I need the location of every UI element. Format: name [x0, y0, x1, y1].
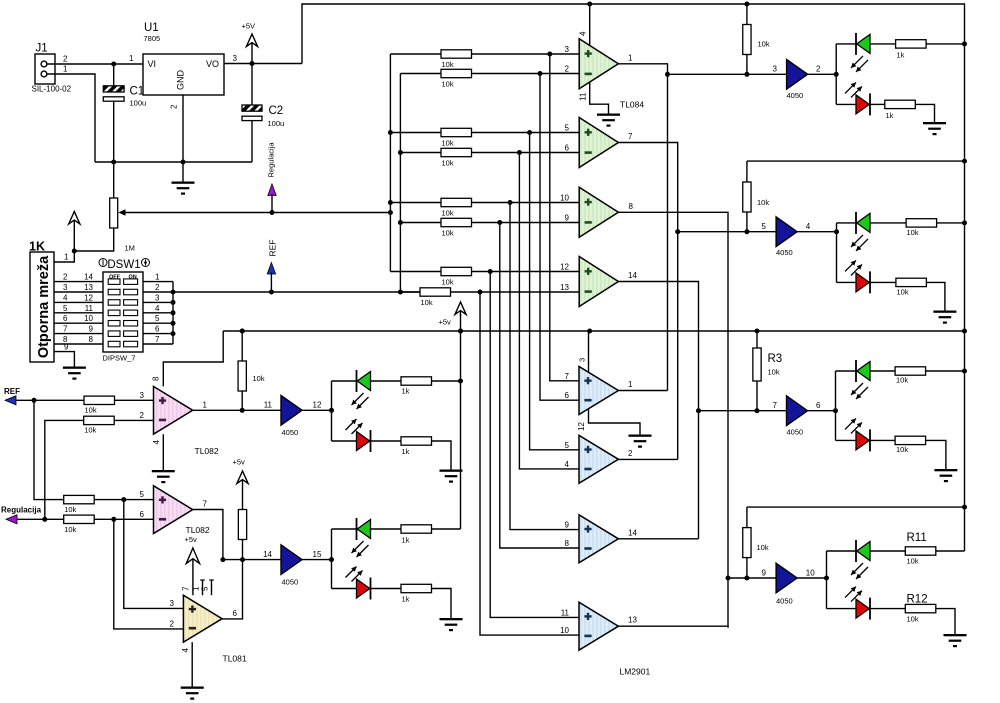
resistor 10k ch3 red — [895, 436, 926, 444]
op-amp U4B TL084 — [579, 118, 618, 168]
wire network pin 6 to DSW1 pin 10 — [54, 322, 103, 324]
+5v col left — [455, 302, 466, 315]
pullup 10k TL082-1 — [238, 361, 246, 391]
bus column node 2 — [540, 74, 579, 401]
svg-text:GND: GND — [176, 70, 186, 91]
svg-text:3: 3 — [170, 599, 175, 608]
buffer 4050 ch3 — [787, 396, 808, 426]
regulator U1 7805 — [143, 54, 224, 95]
svg-text:R3: R3 — [768, 353, 783, 365]
svg-text:10k: 10k — [421, 298, 433, 307]
svg-text:1: 1 — [64, 253, 69, 262]
svg-text:+5V: +5V — [242, 22, 256, 31]
svg-text:11: 11 — [264, 401, 273, 410]
LED branch ch3 — [835, 371, 837, 440]
pullup 10k ch4 — [747, 506, 965, 508]
svg-text:14: 14 — [628, 528, 637, 537]
wire TL081 out6 — [222, 560, 242, 619]
resistor network 1K Otporna mreza — [30, 252, 54, 362]
svg-text:4: 4 — [806, 222, 811, 231]
ground L1 red — [440, 470, 463, 472]
LED branch ch1 — [835, 44, 837, 105]
svg-text:3: 3 — [140, 391, 145, 400]
svg-text:4: 4 — [181, 648, 190, 653]
svg-text:+5v: +5v — [185, 535, 198, 544]
svg-text:10k: 10k — [907, 557, 919, 566]
svg-text:10k: 10k — [907, 228, 919, 237]
svg-text:5: 5 — [140, 490, 145, 499]
wire DSW1 pin 1 to bus — [143, 281, 173, 283]
svg-text:10k: 10k — [442, 139, 454, 148]
svg-text:5: 5 — [565, 441, 570, 450]
svg-text:4050: 4050 — [776, 248, 793, 257]
wire ch4 input — [728, 577, 776, 579]
bus column node 8 — [480, 292, 579, 635]
svg-text:5: 5 — [201, 586, 210, 591]
svg-text:4: 4 — [155, 304, 160, 313]
+5v arrow network — [69, 212, 80, 225]
ground ch2 — [933, 311, 956, 313]
svg-text:6: 6 — [565, 391, 570, 400]
resistor 1k L2 red — [401, 584, 432, 592]
ground symbol U1 — [182, 162, 184, 182]
svg-text:7: 7 — [628, 132, 633, 141]
svg-text:2: 2 — [140, 411, 145, 420]
svg-text:3: 3 — [578, 358, 587, 362]
resistor 10k pin6 — [64, 515, 94, 523]
comp1 pin3 +5v — [588, 331, 590, 372]
resistor 10k row pin3 — [390, 53, 441, 55]
+5v arrow TL082B — [237, 471, 248, 484]
svg-text:2: 2 — [155, 283, 160, 292]
buffer 4050 ch1 — [787, 60, 808, 90]
wire DSW1 pin 2 to bus — [143, 291, 173, 293]
svg-text:10k: 10k — [442, 60, 454, 69]
op-amp U2A TL082 — [154, 386, 193, 434]
svg-text:+5v: +5v — [439, 318, 452, 327]
red LED ch2 — [837, 281, 857, 283]
wire ch2 input — [678, 231, 776, 233]
bus column node 4 — [519, 153, 579, 469]
svg-text:6: 6 — [140, 510, 145, 519]
wire Regulacija up to row2 — [45, 420, 84, 519]
svg-text:TL081: TL081 — [223, 654, 247, 664]
bus column node 5 — [510, 203, 579, 530]
wire REF bus — [173, 291, 420, 293]
svg-text:3: 3 — [565, 45, 570, 54]
resistor 10k row pin9 — [400, 222, 441, 224]
potentiometer 1M — [113, 162, 115, 198]
svg-text:Regulacija: Regulacija — [1, 506, 42, 515]
LED branch L2 — [331, 529, 333, 589]
svg-text:REF: REF — [4, 387, 20, 396]
resistor 10k row pin6 — [400, 152, 441, 154]
pullup 10k TL082B — [238, 510, 246, 540]
green LED L2 — [332, 528, 357, 530]
TL081 pin7 +5v — [192, 580, 194, 595]
svg-text:7: 7 — [773, 401, 778, 410]
green LED ch3 — [836, 370, 857, 372]
TL081 pin4 ground — [191, 642, 193, 686]
op-amp U3 TL081 — [183, 595, 222, 642]
svg-text:3: 3 — [155, 293, 160, 302]
ground ch1 — [923, 122, 946, 124]
U1 GND pin 2 — [182, 95, 184, 162]
wire J1 pin2 to U1 VI — [47, 63, 143, 65]
svg-text:1k: 1k — [402, 387, 410, 396]
op-amp U4C TL084 — [579, 187, 618, 237]
svg-text:10k: 10k — [758, 40, 770, 49]
wire TL082 out1 — [193, 409, 281, 411]
comparator U5D LM2901 — [579, 602, 618, 650]
svg-text:1k: 1k — [886, 111, 894, 120]
svg-text:1: 1 — [155, 273, 160, 282]
red LED L2 — [332, 588, 357, 590]
svg-text:1: 1 — [63, 65, 68, 74]
ground ch4 — [944, 634, 967, 636]
resistor 10k ch2 green — [906, 219, 937, 227]
svg-text:2: 2 — [628, 449, 633, 458]
svg-text:7805: 7805 — [144, 34, 161, 43]
wire DSW1 pin 3 to bus — [143, 301, 173, 303]
svg-text:9: 9 — [565, 214, 570, 223]
LED branch L1 — [331, 381, 333, 441]
svg-text:15: 15 — [313, 550, 322, 559]
svg-text:3: 3 — [233, 54, 238, 63]
svg-text:10: 10 — [806, 569, 815, 578]
resistor 10k ch3 green — [895, 367, 926, 375]
wire out14 — [618, 282, 698, 539]
resistor 10k row pin13 — [400, 291, 420, 293]
wire DSW1 pin 7 to bus — [143, 343, 173, 345]
svg-text:10k: 10k — [442, 209, 454, 218]
svg-text:13: 13 — [628, 616, 637, 625]
svg-text:14: 14 — [84, 273, 93, 282]
svg-text:10k: 10k — [896, 376, 908, 385]
svg-text:VO: VO — [206, 59, 219, 69]
resistor 10k row pin12 — [390, 271, 441, 273]
svg-text:J1: J1 — [36, 43, 48, 55]
wire J1 pin1 down to ground bus — [47, 74, 95, 162]
svg-text:4: 4 — [579, 31, 588, 36]
+5v supply row — [223, 330, 964, 332]
comp4 output wire — [618, 626, 728, 627]
svg-text:5: 5 — [762, 222, 767, 231]
wire out7 — [618, 143, 677, 460]
wire to network pin1 — [54, 251, 74, 262]
svg-text:Otporna mreža: Otporna mreža — [36, 255, 52, 358]
svg-text:1K: 1K — [29, 240, 45, 254]
svg-text:1: 1 — [628, 54, 633, 63]
svg-text:10k: 10k — [896, 445, 908, 454]
svg-text:R12: R12 — [907, 594, 928, 606]
U4A pin4 to rail — [589, 4, 591, 46]
DIP switch DSW1 body — [103, 272, 143, 352]
DSW1 switch elements — [108, 279, 120, 285]
svg-text:10k: 10k — [442, 278, 454, 287]
wire +5V to top rail — [302, 4, 965, 551]
green LED ch2 — [837, 222, 857, 224]
resistor 1k L1 green — [401, 377, 432, 385]
resistor 10k ch2 red — [896, 278, 927, 286]
wire network pin 5 to DSW1 pin 11 — [54, 312, 103, 314]
svg-text:4050: 4050 — [787, 91, 804, 100]
buffer 4050 ch2 — [776, 217, 797, 247]
resistor 10k pin3 — [84, 396, 115, 404]
red LED ch1 — [836, 103, 856, 105]
resistor 1k ch1 green — [896, 40, 927, 48]
svg-text:DSW1: DSW1 — [107, 259, 140, 271]
svg-text:10k: 10k — [757, 198, 769, 207]
wire r5 to TL082 pin5 — [94, 499, 153, 501]
green LED ch4 — [827, 550, 857, 552]
svg-text:10k: 10k — [64, 525, 76, 534]
red LED ch3 — [836, 439, 857, 441]
svg-text:12: 12 — [577, 422, 586, 431]
resistor 10k row pin2 — [400, 73, 441, 75]
svg-text:10k: 10k — [442, 80, 454, 89]
wire ch3 input — [699, 410, 787, 412]
comp1 output wire — [618, 390, 667, 392]
comp2 output wire — [618, 458, 677, 460]
svg-text:TL084: TL084 — [620, 100, 644, 110]
wire row14 — [223, 559, 281, 561]
svg-text:4050: 4050 — [787, 428, 804, 437]
+5V power arrow — [246, 34, 257, 47]
port REF — [5, 396, 16, 405]
red LED ch4 — [827, 608, 857, 610]
svg-text:TL082: TL082 — [195, 446, 219, 456]
wire DSW1 pin 5 to bus — [143, 322, 173, 324]
svg-text:4: 4 — [152, 440, 161, 445]
svg-text:4050: 4050 — [282, 578, 299, 587]
svg-text:8: 8 — [89, 335, 94, 344]
svg-text:C1: C1 — [130, 86, 145, 98]
ground L2 red — [440, 618, 463, 620]
svg-text:1: 1 — [192, 586, 201, 591]
svg-text:13: 13 — [84, 283, 93, 292]
op-amp U2B TL082 — [154, 486, 193, 534]
wire TL082B out7 — [193, 510, 223, 560]
svg-text:9: 9 — [762, 569, 767, 578]
svg-text:7: 7 — [565, 372, 570, 381]
op-amp U4D TL084 — [579, 257, 618, 307]
svg-text:2: 2 — [63, 55, 68, 64]
wire DSW1 pin 6 to bus — [143, 333, 173, 335]
svg-text:5: 5 — [565, 124, 570, 133]
svg-text:9: 9 — [89, 325, 94, 334]
svg-text:10: 10 — [84, 314, 93, 323]
svg-text:10k: 10k — [907, 615, 919, 624]
svg-text:100u: 100u — [268, 119, 285, 128]
LED branch ch2 — [836, 223, 838, 283]
ground ch3 — [934, 469, 957, 471]
svg-text:6: 6 — [233, 609, 238, 618]
net arrow REF — [267, 263, 275, 275]
resistor 1k ch1 red — [885, 100, 916, 108]
svg-text:8: 8 — [565, 539, 570, 548]
svg-text:LM2901: LM2901 — [620, 667, 651, 677]
network pin 9 to ground — [54, 352, 74, 367]
buffer 4050 ch4 — [776, 563, 797, 593]
svg-text:1k: 1k — [402, 536, 410, 545]
resistor R11 10k — [905, 547, 936, 555]
svg-text:5: 5 — [155, 314, 160, 323]
svg-text:11: 11 — [561, 608, 570, 617]
svg-text:10: 10 — [560, 194, 569, 203]
op-amp U4A TL084 — [579, 39, 618, 89]
svg-text:100u: 100u — [130, 99, 147, 108]
svg-text:VI: VI — [148, 59, 157, 69]
+5v arrow mid — [587, 329, 592, 334]
wiper wire Regulacija — [124, 212, 390, 214]
svg-text:TL082: TL082 — [186, 525, 210, 535]
svg-text:1: 1 — [628, 380, 633, 389]
wire r6 to TL082 pin6 — [94, 518, 153, 520]
connector J1 — [35, 54, 55, 84]
svg-text:6: 6 — [816, 401, 821, 410]
svg-text:10k: 10k — [757, 543, 769, 552]
svg-text:9: 9 — [565, 521, 570, 530]
svg-text:5: 5 — [63, 304, 68, 313]
svg-text:10k: 10k — [64, 505, 76, 514]
wire out8 — [618, 212, 728, 627]
TL082 pin8 +5v — [163, 331, 223, 386]
junction C1 tap — [111, 62, 116, 67]
wire r3 to TL082 pin3 — [115, 399, 154, 401]
svg-text:12: 12 — [313, 401, 322, 410]
svg-text:2: 2 — [816, 65, 821, 74]
svg-text:3: 3 — [773, 65, 778, 74]
buffer 4050 L2 — [281, 545, 302, 575]
svg-text:2: 2 — [565, 65, 570, 74]
svg-text:10k: 10k — [897, 288, 909, 297]
svg-text:1: 1 — [129, 54, 134, 63]
bus column node 1 — [550, 54, 579, 381]
svg-text:10k: 10k — [85, 406, 97, 415]
svg-text:2: 2 — [170, 619, 175, 628]
TL082 pin4 ground — [162, 434, 164, 470]
svg-text:1k: 1k — [402, 595, 410, 604]
svg-text:14: 14 — [263, 550, 272, 559]
DSW1 output bus — [172, 282, 174, 344]
svg-text:12: 12 — [84, 293, 93, 302]
bus column node 6 — [500, 223, 579, 549]
capacitor C1 — [113, 64, 115, 86]
U4A pin11 ground — [590, 82, 609, 114]
comp3 output wire — [618, 538, 698, 540]
svg-text:1k: 1k — [402, 447, 410, 456]
svg-text:7: 7 — [203, 500, 208, 509]
+5v row dots — [755, 329, 760, 334]
port Regulacija — [6, 515, 17, 524]
comparator U5A LM2901 — [579, 367, 618, 415]
TL081 pin2 wire — [114, 519, 184, 629]
bus column node 3 — [530, 133, 579, 450]
green LED ch1 — [836, 43, 856, 45]
resistor 10k pin2 — [84, 416, 115, 424]
svg-text:7: 7 — [155, 335, 160, 344]
wire network pin 4 to DSW1 pin 12 — [54, 301, 103, 303]
svg-text:10k: 10k — [442, 229, 454, 238]
resistor 1k L1 red — [401, 437, 432, 445]
wire out1 — [618, 64, 667, 391]
wire r2 to TL082 pin2 — [114, 419, 153, 421]
svg-text:10k: 10k — [84, 426, 96, 435]
svg-text:6: 6 — [565, 144, 570, 153]
TL081 pin1 pin5 stubs — [202, 580, 204, 595]
TL081 pin3 wire — [124, 500, 184, 609]
wire ch1 input — [668, 73, 787, 75]
svg-text:14: 14 — [628, 271, 637, 280]
svg-text:10k: 10k — [253, 374, 265, 383]
LED branch ch4 — [826, 551, 828, 609]
resistor 1k L2 green — [401, 525, 432, 533]
svg-text:6: 6 — [155, 325, 160, 334]
svg-text:2: 2 — [63, 273, 68, 282]
comp1 pin12 ground — [589, 409, 641, 435]
wire network pin 3 to DSW1 pin 13 — [54, 291, 103, 293]
svg-text:10k: 10k — [442, 159, 454, 168]
svg-text:11: 11 — [579, 92, 588, 101]
resistor 10k pin5 — [64, 495, 94, 503]
svg-text:1M: 1M — [125, 244, 135, 253]
svg-text:1k: 1k — [897, 51, 905, 60]
svg-text:4050: 4050 — [282, 428, 299, 437]
svg-text:U1: U1 — [144, 22, 159, 34]
bus minus inputs — [399, 74, 401, 293]
svg-text:7: 7 — [63, 325, 68, 334]
green LED L1 — [332, 380, 357, 382]
junction +5V network — [72, 249, 77, 254]
svg-text:9: 9 — [64, 343, 69, 352]
wire network pin 2 to DSW1 pin 14 — [54, 281, 103, 283]
svg-text:3: 3 — [63, 283, 68, 292]
svg-text:12: 12 — [560, 263, 569, 272]
net arrow Regulacija — [268, 184, 276, 196]
resistor 10k row pin5 — [390, 132, 441, 134]
svg-text:4: 4 — [565, 460, 570, 469]
svg-text:REF: REF — [268, 240, 278, 257]
comparator U5C LM2901 — [579, 515, 618, 563]
svg-text:13: 13 — [560, 283, 569, 292]
svg-text:1: 1 — [203, 401, 208, 410]
svg-text:2: 2 — [170, 104, 179, 109]
wire DSW1 pin 4 to bus — [143, 312, 173, 314]
svg-text:10k: 10k — [768, 368, 780, 377]
wire U1 VO output — [224, 63, 302, 65]
ground bus wire — [95, 161, 252, 163]
bus plus inputs — [389, 54, 391, 272]
pullup 10k ch2 — [747, 160, 965, 162]
svg-text:11: 11 — [85, 304, 94, 313]
svg-text:8: 8 — [629, 202, 634, 211]
wire network pin 7 to DSW1 pin 9 — [54, 333, 103, 335]
svg-text:+5v: +5v — [233, 458, 246, 467]
svg-text:4: 4 — [63, 293, 68, 302]
svg-text:7: 7 — [182, 586, 191, 591]
comparator U5B LM2901 — [579, 435, 618, 483]
svg-text:8: 8 — [152, 376, 161, 381]
svg-text:6: 6 — [63, 314, 68, 323]
bus column node 7 — [490, 272, 579, 618]
svg-text:R11: R11 — [907, 532, 927, 544]
svg-text:SIL-100-02: SIL-100-02 — [32, 85, 72, 94]
resistor 10k row pin10 — [390, 202, 441, 204]
svg-text:4050: 4050 — [776, 597, 793, 606]
svg-text:10: 10 — [560, 626, 569, 635]
capacitor C2 — [251, 64, 253, 106]
